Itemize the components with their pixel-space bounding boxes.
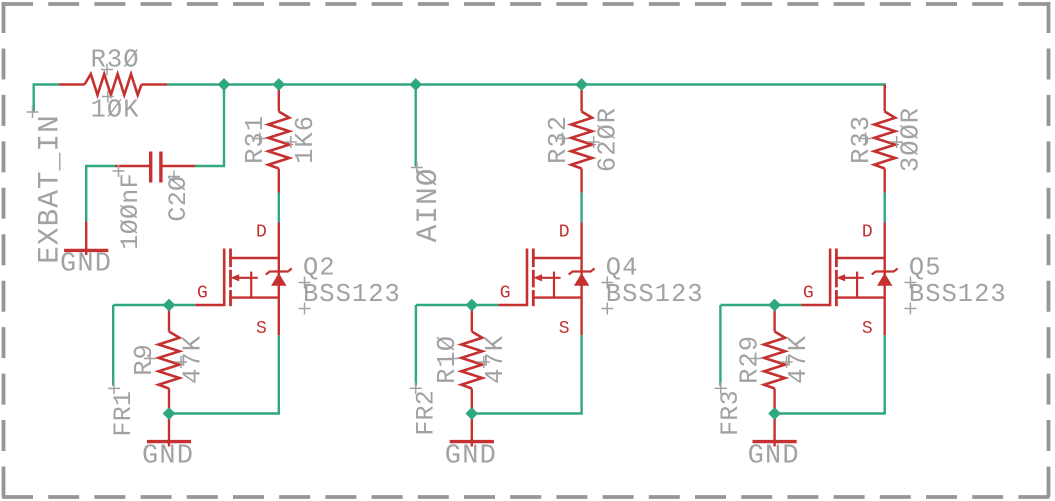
svg-text:BSS123: BSS123 — [303, 280, 401, 309]
svg-text:3ØØR: 3ØØR — [897, 107, 926, 172]
svg-text:47K: 47K — [481, 335, 510, 384]
svg-text:1ØK: 1ØK — [91, 96, 140, 125]
svg-text:R31: R31 — [241, 115, 270, 164]
svg-text:1ØØnF: 1ØØnF — [116, 173, 145, 250]
svg-text:BSS123: BSS123 — [909, 280, 1007, 309]
svg-text:BSS123: BSS123 — [606, 280, 704, 309]
svg-text:Q5: Q5 — [909, 254, 942, 283]
svg-text:S: S — [862, 319, 873, 339]
svg-text:C2Ø: C2Ø — [164, 176, 193, 222]
svg-text:GND: GND — [445, 442, 497, 472]
svg-text:62ØR: 62ØR — [594, 107, 623, 172]
svg-text:Q4: Q4 — [606, 254, 639, 283]
svg-text:FR1: FR1 — [109, 391, 138, 437]
svg-text:D: D — [559, 223, 570, 243]
svg-text:EXBAT_IN: EXBAT_IN — [32, 114, 66, 264]
svg-text:G: G — [197, 284, 208, 304]
svg-text:S: S — [256, 319, 267, 339]
svg-text:R33: R33 — [847, 115, 876, 164]
svg-text:AINØ: AINØ — [411, 168, 445, 243]
svg-text:G: G — [803, 284, 814, 304]
svg-text:D: D — [862, 223, 873, 243]
svg-text:FR3: FR3 — [716, 390, 745, 436]
svg-text:GND: GND — [142, 442, 194, 472]
svg-text:47K: 47K — [784, 335, 813, 384]
svg-text:Q2: Q2 — [303, 254, 336, 283]
svg-text:1K6: 1K6 — [291, 115, 320, 164]
svg-text:S: S — [559, 319, 570, 339]
svg-text:GND: GND — [748, 442, 800, 472]
svg-text:47K: 47K — [178, 335, 207, 384]
svg-text:R1Ø: R1Ø — [433, 335, 462, 384]
svg-text:R9: R9 — [130, 343, 159, 376]
svg-text:GND: GND — [60, 250, 112, 280]
svg-text:R3Ø: R3Ø — [91, 46, 140, 75]
svg-text:G: G — [500, 284, 511, 304]
svg-text:FR2: FR2 — [412, 390, 441, 436]
svg-text:R29: R29 — [736, 335, 765, 384]
svg-text:R32: R32 — [544, 115, 573, 164]
svg-text:D: D — [256, 223, 267, 243]
